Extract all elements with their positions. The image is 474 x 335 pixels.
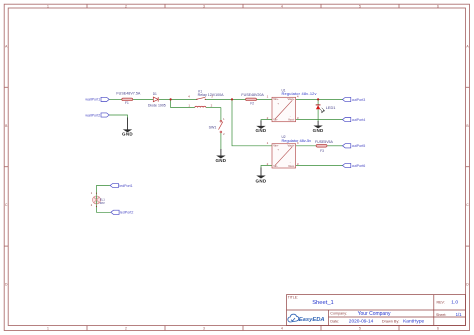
svg-text:wallPort2: wallPort2 bbox=[85, 113, 100, 117]
svg-text:2: 2 bbox=[125, 4, 127, 8]
svg-text:TITLE:: TITLE: bbox=[288, 295, 298, 299]
svg-text:FUSE5V5A: FUSE5V5A bbox=[315, 140, 334, 144]
svg-text:GND: GND bbox=[256, 178, 267, 183]
svg-text:Vout-: Vout- bbox=[288, 118, 294, 122]
svg-text:ledPort2: ledPort2 bbox=[120, 211, 133, 215]
svg-text:Vout+: Vout+ bbox=[287, 97, 294, 101]
svg-text:1/1: 1/1 bbox=[456, 312, 463, 317]
svg-text:Regulator 48v-12v: Regulator 48v-12v bbox=[282, 91, 317, 96]
svg-text:5: 5 bbox=[359, 326, 361, 330]
svg-text:D1: D1 bbox=[153, 92, 157, 96]
svg-text:outPort6: outPort6 bbox=[352, 164, 366, 168]
svg-text:wallPort1: wallPort1 bbox=[85, 98, 100, 102]
svg-text:outPort3: outPort3 bbox=[352, 98, 366, 102]
svg-text:outPort4: outPort4 bbox=[352, 118, 366, 122]
svg-text:GND: GND bbox=[313, 128, 324, 133]
svg-text:Date:: Date: bbox=[330, 319, 339, 323]
svg-text:GND: GND bbox=[256, 128, 267, 133]
svg-text:Regulator 48v-5v: Regulator 48v-5v bbox=[282, 138, 312, 143]
svg-text:4: 4 bbox=[281, 326, 283, 330]
svg-text:F1: F1 bbox=[125, 101, 129, 105]
svg-text:-: - bbox=[290, 161, 291, 164]
svg-text:EasyEDA: EasyEDA bbox=[299, 317, 325, 323]
svg-text:Vout+: Vout+ bbox=[287, 144, 294, 148]
svg-text:1: 1 bbox=[47, 4, 49, 8]
svg-text:Vin-: Vin- bbox=[273, 118, 278, 122]
svg-text:Vin+: Vin+ bbox=[273, 144, 279, 148]
svg-text:GND: GND bbox=[122, 131, 133, 136]
svg-text:3: 3 bbox=[203, 326, 205, 330]
svg-text:6: 6 bbox=[437, 4, 439, 8]
svg-text:ledPort1: ledPort1 bbox=[119, 184, 132, 188]
svg-text:3: 3 bbox=[203, 4, 205, 8]
svg-text:1.0: 1.0 bbox=[451, 300, 458, 306]
svg-text:Diode 1905: Diode 1905 bbox=[148, 104, 166, 108]
svg-text:Sheet:: Sheet: bbox=[436, 313, 446, 317]
svg-text:Vout-: Vout- bbox=[288, 164, 294, 168]
svg-text:SW1: SW1 bbox=[209, 125, 217, 129]
svg-text:LED1: LED1 bbox=[326, 105, 336, 110]
svg-text:Relay 12V/100A: Relay 12V/100A bbox=[198, 93, 225, 97]
svg-text:Your Company: Your Company bbox=[358, 311, 391, 317]
svg-text:F2: F2 bbox=[250, 102, 254, 106]
svg-text:2020-09-14: 2020-09-14 bbox=[349, 318, 374, 324]
svg-text:GND: GND bbox=[215, 158, 226, 163]
svg-text:1: 1 bbox=[47, 326, 49, 330]
svg-text:Drawn By:: Drawn By: bbox=[382, 320, 400, 324]
svg-text:Vin-: Vin- bbox=[273, 164, 278, 168]
svg-text:4: 4 bbox=[281, 4, 283, 8]
svg-text:Sheet_1: Sheet_1 bbox=[312, 300, 334, 306]
svg-text:Vin+: Vin+ bbox=[273, 97, 279, 101]
svg-text:Company:: Company: bbox=[330, 312, 347, 316]
svg-text:FUSE48V20A: FUSE48V20A bbox=[241, 93, 264, 97]
svg-text:6: 6 bbox=[437, 326, 439, 330]
svg-text:outPort5: outPort5 bbox=[352, 144, 366, 148]
svg-text:KantHype: KantHype bbox=[403, 319, 424, 325]
svg-text:REV:: REV: bbox=[437, 301, 445, 305]
svg-text:2: 2 bbox=[125, 326, 127, 330]
svg-text:48V: 48V bbox=[100, 201, 105, 205]
svg-text:FUSE48V7.5A: FUSE48V7.5A bbox=[116, 92, 141, 96]
svg-text:5: 5 bbox=[359, 4, 361, 8]
svg-text:-: - bbox=[290, 115, 291, 118]
svg-text:F3: F3 bbox=[320, 149, 324, 153]
